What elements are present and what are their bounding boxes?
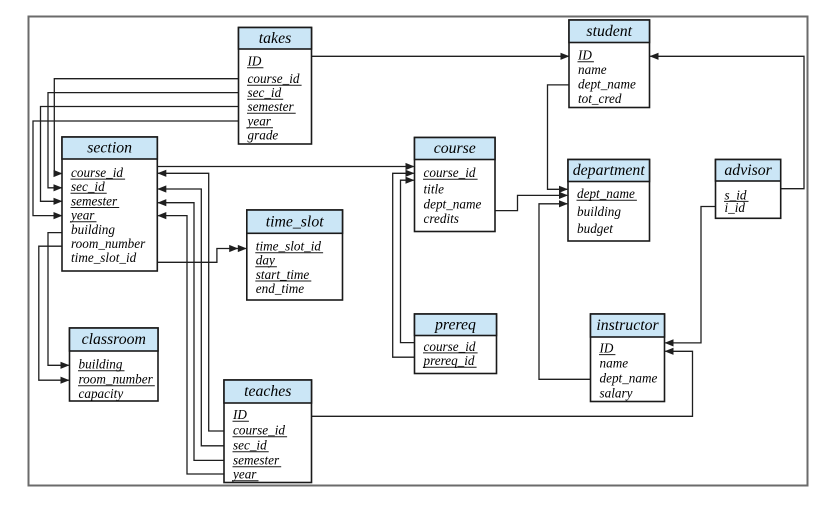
svg-text:dept_name: dept_name [600,371,658,386]
svg-text:teaches: teaches [244,383,291,400]
wire prereq.prereq_id -> course.course_id [393,170,415,358]
wire teaches.ID -> instructor.ID [312,348,693,417]
table prereq [415,314,497,374]
svg-text:course_id: course_id [424,165,476,180]
wire takes.course_id -> section.course_id [54,79,239,177]
wire section.building -> classroom.building [48,233,70,369]
table classroom [70,328,159,401]
svg-text:section: section [87,140,132,157]
wire course.dept_name -> department.dept_name [495,192,568,211]
wire prereq.course_id -> course.course_id [401,177,415,343]
svg-text:time_slot_id: time_slot_id [71,250,137,265]
svg-text:semester: semester [71,193,118,208]
svg-text:room_number: room_number [71,236,146,251]
wire student.dept_name -> department.dept_name [548,85,570,193]
svg-text:title: title [424,182,445,197]
table student [569,20,650,108]
wire advisor.i_id -> instructor.ID [665,207,716,347]
table course [415,138,496,232]
svg-text:tot_cred: tot_cred [578,91,622,106]
svg-text:prereq_id: prereq_id [423,353,475,368]
svg-text:sec_id: sec_id [248,85,282,100]
svg-text:advisor: advisor [724,162,772,179]
svg-text:classroom: classroom [82,331,146,348]
svg-text:salary: salary [600,386,633,401]
svg-text:i_id: i_id [725,200,746,215]
wire teaches.sec_id -> section.sec_id [157,185,224,445]
wire teaches.year -> section.year [157,212,224,474]
table advisor [716,160,781,219]
svg-text:start_time: start_time [256,267,310,282]
svg-text:dept_name: dept_name [577,186,635,201]
wire takes.semester -> section.semester [41,107,239,205]
svg-text:prereq: prereq [434,316,476,333]
svg-text:day: day [256,253,275,268]
svg-text:takes: takes [259,30,291,47]
table takes [239,28,312,145]
svg-text:student: student [586,23,632,40]
wire takes.ID -> student.ID [312,53,570,60]
svg-text:dept_name: dept_name [578,77,636,92]
svg-text:end_time: end_time [256,281,304,296]
svg-text:sec_id: sec_id [71,179,105,194]
svg-text:instructor: instructor [596,317,659,334]
table department [568,160,650,242]
svg-text:year: year [69,208,95,223]
svg-text:building: building [577,204,621,219]
svg-text:ID: ID [599,341,614,356]
svg-text:name: name [578,62,607,77]
svg-text:course_id: course_id [248,71,300,86]
svg-text:course: course [434,140,476,157]
svg-text:budget: budget [577,221,613,236]
svg-text:sec_id: sec_id [233,438,267,453]
svg-text:ID: ID [247,54,262,69]
svg-text:year: year [246,114,272,129]
svg-text:ID: ID [232,407,247,422]
svg-text:semester: semester [233,453,280,468]
svg-text:semester: semester [248,99,295,114]
svg-text:building: building [71,222,115,237]
svg-text:dept_name: dept_name [424,197,482,212]
wire section.time_slot_id -> time_slot.time_slot_id [157,245,247,262]
svg-text:ID: ID [577,48,592,63]
table teaches [224,380,312,483]
wire section.course_id -> course.course_id [157,163,414,170]
wire teaches.semester -> section.semester [157,199,224,460]
svg-text:department: department [573,162,646,179]
svg-text:room_number: room_number [79,372,154,387]
table instructor [591,314,665,402]
svg-text:course_id: course_id [71,165,123,180]
svg-text:building: building [79,357,123,372]
svg-text:capacity: capacity [79,386,124,401]
table section [62,137,157,271]
svg-text:time_slot: time_slot [266,213,325,230]
wire teaches.course_id -> section.course_id [157,170,224,431]
wire advisor.s_id -> student.ID [650,53,805,189]
wire section.room_number -> classroom.room_number [39,246,70,384]
svg-text:grade: grade [248,128,279,143]
table time_slot [247,210,343,300]
wire instructor.dept_name -> department.dept_name [539,200,591,379]
svg-text:course_id: course_id [424,339,476,354]
svg-text:credits: credits [424,211,459,226]
wire takes.sec_id -> section.sec_id [48,93,239,192]
wire takes.year -> section.year [33,121,239,219]
svg-text:year: year [231,467,257,482]
svg-text:time_slot_id: time_slot_id [256,239,322,254]
svg-text:course_id: course_id [233,423,285,438]
svg-text:name: name [600,356,629,371]
